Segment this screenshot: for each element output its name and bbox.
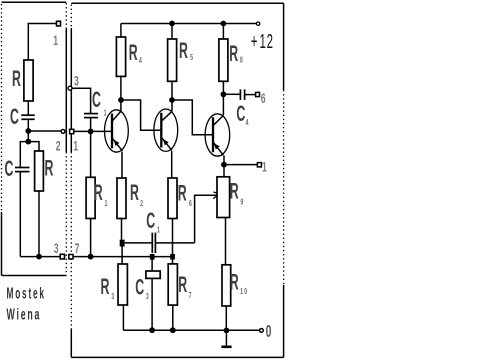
svg-text:1: 1 bbox=[73, 139, 78, 155]
svg-text:2: 2 bbox=[56, 138, 61, 154]
svg-text:7: 7 bbox=[189, 292, 192, 300]
svg-text:1: 1 bbox=[105, 200, 108, 208]
svg-text:C: C bbox=[236, 101, 245, 126]
svg-text:R: R bbox=[179, 38, 188, 63]
svg-text:Wiena: Wiena bbox=[7, 305, 42, 324]
svg-text:+: + bbox=[251, 31, 258, 53]
svg-text:9: 9 bbox=[241, 198, 244, 206]
svg-text:R: R bbox=[230, 179, 239, 204]
svg-text:C: C bbox=[5, 156, 14, 181]
svg-text:1: 1 bbox=[157, 226, 160, 234]
svg-text:12: 12 bbox=[260, 31, 274, 53]
svg-text:R: R bbox=[94, 180, 103, 205]
svg-text:R: R bbox=[229, 41, 238, 66]
svg-text:C: C bbox=[10, 104, 19, 129]
svg-text:3: 3 bbox=[74, 74, 79, 90]
svg-text:R: R bbox=[101, 274, 110, 299]
svg-text:1: 1 bbox=[262, 159, 267, 175]
svg-text:3: 3 bbox=[111, 293, 114, 301]
svg-text:2: 2 bbox=[140, 200, 143, 208]
svg-text:0: 0 bbox=[266, 323, 272, 342]
svg-text:C: C bbox=[146, 208, 155, 233]
svg-text:R: R bbox=[178, 272, 187, 297]
svg-text:1: 1 bbox=[104, 109, 107, 117]
svg-text:4: 4 bbox=[246, 119, 249, 127]
svg-text:8: 8 bbox=[240, 56, 243, 64]
svg-text:C: C bbox=[135, 275, 144, 300]
svg-text:R: R bbox=[130, 180, 139, 205]
svg-text:3: 3 bbox=[54, 241, 59, 257]
svg-text:R: R bbox=[178, 181, 187, 206]
svg-text:7: 7 bbox=[75, 241, 80, 257]
svg-text:6: 6 bbox=[189, 200, 192, 208]
svg-text:4: 4 bbox=[139, 57, 142, 65]
svg-text:R: R bbox=[129, 40, 138, 65]
svg-text:5: 5 bbox=[190, 54, 193, 62]
svg-text:R: R bbox=[230, 270, 239, 295]
svg-text:3: 3 bbox=[146, 293, 149, 301]
svg-text:R: R bbox=[45, 156, 54, 181]
svg-text:R: R bbox=[12, 66, 21, 91]
svg-text:10: 10 bbox=[240, 288, 248, 296]
svg-text:6: 6 bbox=[261, 91, 266, 107]
svg-text:C: C bbox=[92, 87, 101, 112]
svg-text:Mostek: Mostek bbox=[7, 284, 46, 303]
svg-text:1: 1 bbox=[53, 33, 58, 49]
